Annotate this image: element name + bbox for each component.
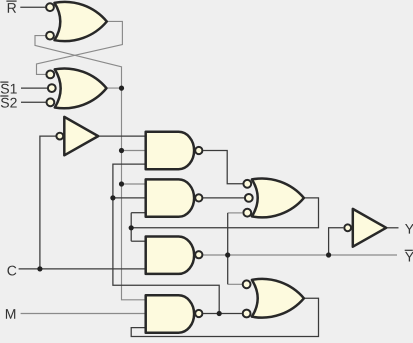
svg-text:R: R — [7, 0, 17, 16]
svg-text:C: C — [7, 262, 17, 278]
svg-text:Y: Y — [405, 249, 413, 265]
svg-text:Y: Y — [405, 221, 413, 237]
svg-text:M: M — [5, 306, 17, 322]
svg-text:S2: S2 — [0, 95, 17, 111]
